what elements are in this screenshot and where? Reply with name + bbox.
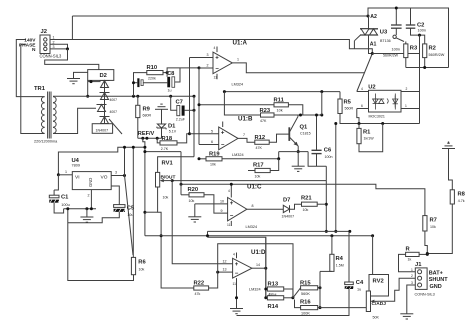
label U4 (72, 158, 80, 164)
svg-text:A1: A1 (370, 42, 377, 48)
svg-text:R14: R14 (268, 304, 279, 310)
capacitor C3 small (137, 78, 143, 87)
wire U1:C V+ (228, 183, 233, 198)
svg-text:R13: R13 (268, 282, 279, 288)
wire C1 bottom (54, 203, 64, 213)
svg-text:R16: R16 (300, 300, 311, 306)
label R15 (300, 281, 311, 287)
label VO (101, 174, 108, 180)
wire U1:A +in (190, 53, 214, 58)
svg-text:10: 10 (220, 199, 224, 203)
wire snubber bottom (406, 58, 449, 69)
label C4 (356, 280, 364, 286)
resistor R7 (423, 216, 427, 231)
label R17 (253, 163, 264, 169)
label LM324 D (249, 288, 261, 292)
svg-text:LM324: LM324 (232, 83, 244, 87)
wire U1:C +in (195, 199, 228, 204)
label REF/V (138, 131, 155, 137)
svg-text:47k: 47k (195, 292, 201, 296)
ground near D2 (67, 72, 88, 83)
svg-text:220k: 220k (148, 77, 156, 81)
transistor Q1 (289, 115, 298, 146)
label 100n sw (392, 48, 400, 52)
svg-text:100n: 100n (392, 48, 400, 52)
label R21 (301, 196, 312, 202)
label U1:A (233, 39, 248, 46)
diodes D3-D6 chain (97, 80, 110, 123)
svg-text:3: 3 (411, 281, 413, 285)
box RV2 (369, 275, 389, 297)
label R20 (188, 187, 199, 193)
svg-text:R12: R12 (255, 135, 266, 141)
diode D7 (283, 205, 289, 212)
wire U2 pin4 (357, 87, 369, 91)
wire R21 right (317, 203, 326, 205)
wire rail1 up (325, 166, 327, 180)
wire C7 stub (171, 96, 177, 110)
svg-text:1: 1 (65, 170, 67, 174)
svg-text:11: 11 (233, 282, 237, 286)
svg-text:D2: D2 (100, 73, 107, 79)
svg-text:U2: U2 (368, 84, 375, 90)
label BT136 (380, 39, 391, 43)
op-amp U1:C (228, 198, 247, 221)
label 5.1V (169, 130, 177, 134)
label R14 (268, 304, 279, 310)
wire vert r21 (325, 181, 328, 233)
wire RV1 pot link (145, 211, 158, 213)
node A2 (367, 15, 370, 18)
svg-text:D7: D7 (283, 198, 290, 204)
svg-text:−: − (221, 143, 225, 149)
label 4.7M (268, 293, 276, 297)
wire box top u1d (206, 234, 209, 237)
label LM324 A (232, 83, 244, 87)
label C/ADJ (372, 301, 387, 307)
resistor R18 (160, 141, 177, 145)
pot RV2 (366, 291, 378, 312)
node junction pin2/pin3 (66, 47, 69, 50)
label U1:B (238, 115, 253, 122)
label R10 (147, 65, 158, 71)
wire R left (399, 254, 416, 271)
wire U1:A -in (199, 64, 213, 69)
wire R4 top (331, 236, 333, 255)
svg-text:10u: 10u (127, 213, 133, 217)
wire u1d +in feed (172, 181, 232, 264)
wire C1 top (54, 175, 58, 195)
svg-text:13: 13 (223, 268, 227, 272)
label R11 (274, 98, 285, 104)
svg-text:560R/2W: 560R/2W (383, 54, 399, 58)
label 1.5M (336, 264, 344, 268)
capacitor C7 (177, 106, 185, 116)
wire R19 left (198, 157, 207, 160)
wire refv drop (143, 138, 147, 235)
svg-text:1u: 1u (357, 288, 361, 292)
wire R16 right (318, 307, 320, 309)
label 10k R19 (210, 163, 216, 167)
wire R20 right (204, 195, 228, 213)
svg-text:560R: 560R (345, 107, 354, 111)
wire U1:A out (232, 58, 364, 73)
wire left vertical from top rail to J2 (71, 16, 73, 40)
wire rail1 (171, 179, 327, 182)
label RV2 (373, 279, 384, 285)
svg-text:1: 1 (237, 58, 239, 62)
label 10k R11 (277, 109, 283, 113)
label 10k R21 (303, 208, 309, 212)
wire long right vert (419, 35, 421, 123)
label 100K (301, 312, 310, 316)
svg-text:TR1: TR1 (34, 86, 46, 92)
resistor R20 (189, 193, 204, 197)
wire R19 right (222, 158, 279, 160)
label R18 (162, 136, 173, 142)
label CONN-SIL3 J2 (40, 54, 63, 59)
label 100n C2 (418, 29, 426, 33)
wire C3 leads (132, 81, 167, 84)
regulator U4 box (72, 172, 111, 190)
wire C4 bottom (237, 289, 350, 316)
wire refv left link (132, 146, 147, 149)
svg-text:1k: 1k (269, 293, 273, 297)
svg-text:4007: 4007 (110, 110, 118, 114)
connector J1 pins (418, 270, 422, 287)
resistor R16 (301, 306, 318, 310)
svg-text:GND: GND (88, 178, 93, 187)
wire R18 left (157, 138, 160, 143)
wire R5 bottom (340, 114, 341, 124)
label GND rotated (88, 178, 93, 187)
svg-text:R5: R5 (344, 100, 352, 106)
wire R1 bottom (359, 124, 383, 152)
svg-text:11: 11 (214, 76, 218, 80)
label R2 (429, 46, 436, 52)
wire R5 top (339, 92, 341, 99)
wire refv node (138, 137, 162, 140)
resistor R4 (330, 254, 334, 271)
wire TR1 primary top (16, 40, 44, 97)
svg-text:9: 9 (221, 209, 223, 213)
label 47K R23 (260, 119, 267, 123)
capacitor C2 (406, 25, 416, 28)
wire R11 left (198, 103, 275, 106)
wire U1:B out (238, 133, 255, 142)
svg-text:−: − (215, 67, 219, 73)
label R1 (363, 130, 371, 136)
svg-text:8: 8 (252, 204, 254, 208)
wire U1:C +in gnd (188, 204, 201, 222)
wire gnd to R6 bottom (68, 209, 134, 281)
svg-text:1.5M: 1.5M (336, 264, 344, 268)
wire R11 right (288, 105, 302, 115)
resistor R13 (267, 287, 283, 291)
op-amp U1:A (213, 52, 232, 74)
svg-text:1: 1 (53, 36, 55, 40)
wire fb drop (277, 152, 280, 161)
svg-text:1: 1 (411, 268, 413, 272)
svg-text:U3: U3 (380, 30, 388, 36)
svg-text:1k: 1k (408, 258, 412, 262)
svg-text:U1:D: U1:D (251, 249, 266, 256)
wire R10 left (134, 73, 147, 96)
wire C5 top (111, 186, 119, 205)
switch symbol (393, 35, 404, 41)
svg-text:R9: R9 (143, 107, 151, 113)
wire U4 pin3 (111, 171, 124, 176)
label BAT+ (429, 270, 443, 276)
label 50K (373, 316, 380, 320)
label D7 (283, 198, 290, 204)
label 1u (168, 89, 172, 93)
connector J2 pin circles (44, 38, 47, 51)
label 560R/2W a (383, 54, 399, 58)
resistor R12 (255, 140, 269, 144)
label 220k (148, 77, 156, 81)
label 1u C4 (357, 288, 361, 292)
wire RV2 top (372, 236, 374, 275)
wire diag r15 (293, 288, 301, 298)
label 12 (223, 259, 227, 263)
svg-text:+: + (215, 56, 219, 62)
svg-text:U1:C: U1:C (247, 183, 262, 190)
ground J1 (400, 314, 413, 319)
label 140V PHASE N (19, 38, 36, 54)
svg-text:U1:B: U1:B (238, 115, 253, 122)
svg-text:10k: 10k (303, 208, 309, 212)
label 10u (127, 213, 133, 217)
wire R1 top (358, 124, 360, 129)
wire R12 right (269, 134, 289, 142)
wire U1:D out (252, 263, 267, 270)
label 1N4007 (96, 129, 109, 133)
label R4 (336, 256, 344, 262)
label C5 (127, 206, 135, 212)
svg-text:C6: C6 (324, 148, 332, 154)
svg-text:J2: J2 (41, 29, 47, 35)
svg-text:10k: 10k (430, 225, 436, 229)
svg-text:VI: VI (75, 174, 80, 180)
resistor R22 (194, 286, 209, 290)
svg-text:220/12000ma: 220/12000ma (34, 140, 58, 144)
label RV1 (162, 161, 174, 167)
wire top rail (mains to A2) (72, 15, 368, 17)
svg-text:680R: 680R (143, 114, 152, 118)
label CONN-SIL3 J1 (415, 293, 435, 297)
wire D1 bottom (161, 128, 163, 138)
wire opto rail (341, 122, 420, 125)
svg-text:2: 2 (207, 64, 209, 68)
svg-text:2: 2 (411, 274, 413, 278)
wire A1 row (372, 53, 419, 55)
label 10k R7 (430, 225, 436, 229)
label VI (75, 174, 80, 180)
label R value (408, 258, 412, 262)
node U4 out (123, 174, 126, 177)
wire R10 right (163, 71, 169, 74)
connector J1 box (415, 268, 427, 290)
wire R9 bottom (137, 118, 139, 139)
svg-text:10k: 10k (139, 268, 145, 272)
wire U1:B +in (190, 129, 219, 134)
resistor R19 (206, 157, 222, 161)
svg-text:R18: R18 (162, 136, 173, 142)
resistor R14 (267, 296, 283, 300)
svg-text:R20: R20 (188, 187, 199, 193)
svg-text:12: 12 (223, 259, 227, 263)
resistor R (406, 252, 420, 256)
wire r20 feed (143, 150, 181, 153)
label J1 (415, 262, 422, 268)
svg-text:+: + (235, 262, 239, 268)
wire U4 pin2 gnd (88, 190, 92, 209)
capacitor snubber cap1 (391, 25, 402, 28)
svg-text:C/ADJ: C/ADJ (372, 301, 387, 307)
svg-text:R6: R6 (138, 260, 146, 266)
svg-text:C4: C4 (356, 280, 364, 286)
wire vert -inA (198, 68, 200, 145)
wire triac top (368, 16, 370, 29)
label 220V/12000ma (34, 140, 58, 144)
pot RV1 (156, 172, 173, 187)
label C7 (176, 100, 183, 106)
svg-text:A2: A2 (370, 14, 377, 20)
label R16 (300, 300, 311, 306)
label TR1 (34, 86, 46, 92)
label 10k RV1 (163, 196, 169, 200)
svg-text:4: 4 (228, 189, 230, 193)
wire gnd rail u4 (64, 207, 96, 210)
label U1:D (251, 249, 266, 256)
ground above R8 (442, 141, 455, 148)
label C1 (61, 195, 69, 201)
svg-text:−: − (230, 214, 234, 220)
label R8 (458, 192, 466, 198)
svg-text:3: 3 (207, 53, 209, 57)
wire VI feed (58, 147, 133, 175)
wire to RV2 bottom (320, 308, 368, 312)
wire vert +inA (189, 58, 191, 134)
svg-text:1N4007: 1N4007 (96, 129, 109, 133)
wire U4 pin1 (58, 170, 72, 175)
svg-text:+: + (221, 131, 225, 137)
label 1k R14 (269, 293, 273, 297)
resistor R8 (450, 190, 454, 204)
svg-text:560R/2W: 560R/2W (429, 53, 445, 57)
resistor R6 (131, 257, 135, 274)
svg-text:MOC3021: MOC3021 (369, 115, 385, 119)
svg-text:BAT+: BAT+ (429, 270, 443, 276)
label R9 (143, 107, 151, 113)
label U1:C (247, 183, 262, 190)
label 9 (221, 209, 223, 213)
wire U1:D V- (233, 278, 239, 308)
wire R18 right (177, 132, 191, 143)
svg-text:3: 3 (115, 171, 117, 175)
wire J2 pin2 (51, 44, 68, 49)
svg-text:100n: 100n (418, 29, 426, 33)
svg-text:R1: R1 (363, 130, 371, 136)
wire emitter gnd (292, 152, 305, 172)
wire D2 left b (86, 80, 89, 97)
label SHUNT (429, 277, 449, 283)
wire C6 bottom (308, 152, 326, 167)
label 2.2uF (176, 118, 186, 122)
wire R right (419, 253, 429, 256)
label 47k R22 (195, 292, 201, 296)
label 1k1W (364, 137, 375, 141)
wire R4 bottom (320, 270, 332, 272)
label U2 (368, 84, 375, 90)
label MOC3021 (369, 115, 385, 119)
label 1N4007 small b (110, 110, 118, 114)
capacitor C8 (167, 77, 174, 88)
svg-text:C7: C7 (176, 100, 183, 106)
wire U2 pin1 (401, 104, 420, 108)
svg-text:4: 4 (214, 46, 216, 50)
resistor R15 (301, 286, 318, 290)
label 47K R12 (256, 146, 263, 150)
svg-text:CONN-SIL3: CONN-SIL3 (40, 54, 63, 59)
wire C8 stub (166, 73, 168, 77)
label Q1 (300, 125, 309, 131)
wire R15 right (318, 286, 322, 289)
svg-text:R17: R17 (253, 163, 264, 169)
label C8 (167, 71, 175, 77)
ground under U4 (80, 209, 93, 223)
svg-text:−: − (235, 271, 239, 277)
svg-text:1N4007: 1N4007 (282, 215, 295, 219)
capacitor C6 (312, 150, 322, 153)
svg-text:10k: 10k (277, 109, 283, 113)
label 680R (143, 114, 152, 118)
svg-text:RV2: RV2 (373, 279, 384, 285)
op-amp U1:D (233, 258, 252, 278)
label J2 (41, 29, 47, 35)
wire vert 321 (321, 92, 323, 115)
label J2 pin numbers (53, 36, 55, 50)
svg-text:U1:A: U1:A (233, 39, 248, 46)
wire RV1 top (158, 157, 194, 173)
wire RV2 wiper (378, 278, 415, 301)
capacitor C4 (345, 282, 355, 289)
svg-text:B/OUT: B/OUT (161, 174, 176, 180)
wire R23 right (274, 114, 323, 117)
wire R3 top (405, 42, 407, 44)
wire u1d top link (208, 237, 266, 297)
wire C7 right (185, 109, 196, 112)
svg-text:R8: R8 (458, 192, 466, 198)
svg-text:4007: 4007 (110, 98, 118, 102)
capacitor C5 (114, 205, 126, 212)
svg-text:11: 11 (227, 223, 231, 227)
svg-text:560K: 560K (301, 292, 310, 296)
svg-text:R2: R2 (429, 46, 436, 52)
label R7 (430, 218, 437, 224)
label R6 (138, 260, 146, 266)
label 2.7K (161, 147, 169, 151)
wire U1:B -in (199, 140, 219, 145)
svg-text:R11: R11 (274, 98, 285, 104)
svg-text:2.2uF: 2.2uF (176, 118, 186, 122)
svg-text:RV1: RV1 (162, 161, 174, 167)
wire C5 bottom (68, 212, 120, 223)
opto internals (373, 94, 398, 110)
label B/OUT (161, 174, 176, 180)
svg-text:6: 6 (361, 104, 363, 108)
